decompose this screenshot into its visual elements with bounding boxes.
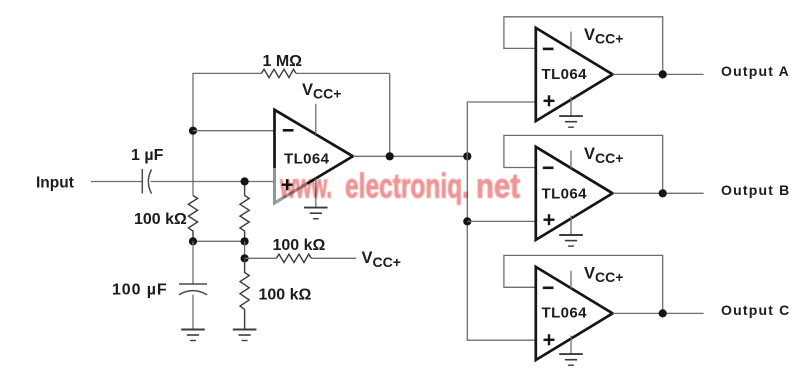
B VCC stub <box>570 151 572 169</box>
ground under C <box>559 354 583 365</box>
wire bus to op-amp C + input <box>467 339 536 341</box>
node: A output dot <box>659 70 667 78</box>
node: bus junction dot <box>463 152 471 160</box>
wire U1 output <box>353 155 467 157</box>
ground under U1 <box>304 208 328 219</box>
wire B output <box>613 192 704 194</box>
wire feedback top left segment <box>192 72 261 74</box>
svg-text:TL064: TL064 <box>542 66 588 83</box>
wire bus to op-amp B + input <box>467 220 536 222</box>
op-amp B triangle <box>536 147 613 240</box>
node: junction dot bias right <box>241 237 249 245</box>
node: C output dot <box>659 309 667 317</box>
ground under A <box>559 116 583 127</box>
wire short vertical between bias dots <box>244 241 246 258</box>
B minus sign <box>543 167 554 170</box>
op-amp A triangle <box>536 28 613 121</box>
wire bus to op-amp A + input <box>467 101 536 103</box>
A minus sign <box>543 48 554 51</box>
svg-text:www.: www. <box>279 167 332 205</box>
node: junction dot bias left <box>189 237 197 245</box>
svg-text:100 kΩ: 100 kΩ <box>273 237 326 254</box>
wire input to capacitor C1 <box>91 181 142 183</box>
C ground stub <box>570 336 572 354</box>
svg-text:electroniq.: electroniq. <box>345 167 469 205</box>
svg-text:1 MΩ: 1 MΩ <box>263 53 303 70</box>
A plus sign <box>544 95 555 106</box>
wire A feedback loop <box>504 17 663 75</box>
ground under B <box>559 235 583 246</box>
svg-text:100 kΩ: 100 kΩ <box>134 211 187 228</box>
wire feedback top right segment <box>296 72 390 74</box>
C VCC stub <box>570 271 572 289</box>
svg-text:Input: Input <box>36 175 74 192</box>
wire capacitor to op-amp U1 + input <box>151 181 275 183</box>
svg-text:Output C: Output C <box>721 302 790 318</box>
node: B output dot <box>659 189 667 197</box>
svg-text:Output A: Output A <box>721 63 790 79</box>
U1 minus sign <box>283 129 294 132</box>
U1 plus sign <box>282 179 293 190</box>
wire to inverting input of U1 <box>193 130 275 132</box>
svg-text:TL064: TL064 <box>542 186 588 203</box>
B plus sign <box>544 214 555 225</box>
wire B feedback loop <box>504 135 663 193</box>
svg-text:net: net <box>476 167 520 205</box>
node: junction dot inverting input <box>189 127 197 135</box>
capacitor C2 100uF curved plate <box>179 291 207 295</box>
op-amp C triangle <box>536 267 613 360</box>
op-amp U1 (first TL064) <box>275 110 353 203</box>
svg-text:1 µF: 1 µF <box>131 147 164 164</box>
capacitor C1 1uF plate <box>141 169 143 194</box>
U1 VCC stub <box>315 104 317 135</box>
resistor R2 100k zigzag (left vertical) <box>188 196 197 242</box>
capacitor C1 1uF curved plate <box>148 170 151 194</box>
node: junction dot at +input bias <box>241 177 249 185</box>
svg-text:100 kΩ: 100 kΩ <box>259 287 312 304</box>
wire R4 to VCC+ <box>311 257 356 259</box>
node: bus junction dot to B <box>463 217 471 225</box>
wire C output <box>613 312 704 314</box>
wire feedback left vertical <box>192 73 194 195</box>
node: junction dot VCC divider <box>241 254 249 262</box>
wire bias row connecting R2 R3 bottoms <box>193 240 245 242</box>
ground under C2 <box>181 330 205 341</box>
node: output junction dot (feedback) <box>386 152 394 160</box>
watermark www.electroniq.net <box>0 0 1 1</box>
A ground stub <box>570 97 572 116</box>
resistor R4 100k zigzag horizontal <box>276 254 311 262</box>
resistor R5 100k zigzag (divider lower) <box>240 258 249 329</box>
C minus sign <box>543 286 554 289</box>
wire C2 to ground <box>192 295 194 329</box>
B ground stub <box>570 216 572 235</box>
wire distribution bus vertical <box>466 102 468 340</box>
svg-text:Output B: Output B <box>721 182 790 198</box>
wire bias dot down to capacitor C2 <box>192 241 194 284</box>
resistor R1 1 Mohm zigzag <box>261 69 296 77</box>
svg-text:TL064: TL064 <box>284 151 330 168</box>
C plus sign <box>544 334 555 345</box>
svg-text:100 µF: 100 µF <box>112 282 168 299</box>
resistor R3 100k zigzag (from +input down) <box>240 186 249 242</box>
ground under R5 <box>233 330 257 341</box>
A VCC stub <box>570 32 572 50</box>
wire A output <box>613 73 704 75</box>
wire C feedback loop <box>504 255 663 313</box>
svg-text:TL064: TL064 <box>542 305 588 322</box>
op-amp U1 lower-left gray edge segment <box>275 168 308 203</box>
wire feedback right vertical <box>389 73 391 156</box>
wire to R4 <box>245 257 277 259</box>
U1 ground stub <box>315 179 317 207</box>
capacitor C2 100uF plate <box>179 283 207 285</box>
